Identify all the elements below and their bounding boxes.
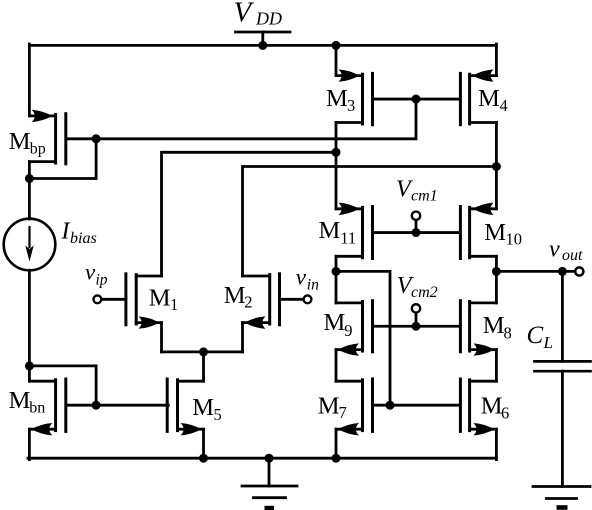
terminal Vcm1: [415, 220, 418, 232]
svg-text:M: M: [318, 392, 340, 419]
wire Ibias to Mbn: [28, 270, 31, 381]
wire rail to M3 source: [335, 45, 338, 75]
svg-text:M: M: [224, 282, 246, 309]
terminal vout: [575, 267, 583, 275]
wire Mbp diode tie: [31, 139, 96, 179]
svg-text:M: M: [326, 85, 348, 112]
transistor Mbp: [29, 115, 55, 118]
node Mbn gate tie on rail: [25, 361, 34, 370]
transistor M3: [336, 74, 363, 77]
node Vcm2 gate: [412, 322, 421, 331]
wire M1 drain up: [162, 152, 337, 276]
wire M10 drain down: [495, 256, 498, 303]
svg-text:M: M: [324, 309, 346, 336]
current source Ibias: [4, 219, 56, 271]
node Vcm1 gate: [412, 228, 421, 237]
svg-text:11: 11: [340, 228, 356, 247]
transistor Mbn: [29, 380, 55, 383]
node Mbn gate tie: [92, 401, 101, 410]
node CL tap: [558, 267, 567, 276]
svg-text:bias: bias: [70, 230, 97, 247]
terminal Vcm2: [415, 313, 418, 326]
wire M3-M4 gate: [374, 98, 460, 101]
svg-text:M: M: [149, 285, 171, 312]
svg-text:7: 7: [339, 403, 347, 422]
svg-text:9: 9: [344, 321, 352, 340]
node tail junction: [199, 347, 208, 356]
svg-text:I: I: [61, 219, 71, 245]
svg-text:v: v: [549, 237, 560, 263]
transistor M11: [336, 207, 363, 210]
svg-text:v: v: [296, 265, 307, 290]
wire M3 drain down: [335, 123, 338, 209]
node M5 source rail: [199, 454, 208, 463]
wire vout to CL: [561, 271, 564, 361]
ground center: [242, 485, 297, 488]
terminal vin: [280, 298, 304, 301]
wire M9 source down: [335, 350, 338, 382]
wire rail to ground: [268, 458, 271, 486]
node Mbp drain-gate tie: [25, 174, 34, 183]
svg-text:M: M: [192, 394, 214, 421]
svg-text:DD: DD: [255, 9, 282, 29]
svg-text:cm2: cm2: [411, 284, 438, 301]
wire M2 drain up: [243, 167, 497, 277]
svg-text:M: M: [319, 217, 341, 244]
wire M1 source down: [160, 323, 163, 352]
wire VDD top rail: [29, 44, 496, 47]
terminal vip: [102, 298, 126, 301]
transistor M5: [178, 380, 204, 383]
svg-text:2: 2: [244, 293, 252, 312]
wire M8 source down: [495, 350, 498, 382]
svg-text:in: in: [307, 276, 319, 293]
node M3-M4 gate junction: [412, 95, 421, 104]
svg-text:C: C: [527, 322, 544, 349]
wire left rail upper: [28, 44, 31, 116]
transistor M1: [136, 275, 161, 278]
svg-text:6: 6: [501, 404, 509, 423]
wire Mbn-M5 gate: [67, 404, 168, 407]
transistor M4: [470, 74, 497, 77]
node M7-M6 gate junction: [386, 401, 395, 410]
node wire B junction: [332, 148, 341, 157]
svg-text:M: M: [484, 219, 506, 246]
wire CL to ground: [561, 371, 564, 486]
wire M2 source down: [241, 323, 244, 352]
transistor M6: [470, 380, 497, 383]
transistor M10: [470, 207, 497, 210]
svg-text:ip: ip: [96, 271, 108, 288]
node left cascode: [332, 267, 341, 276]
wire M4 drain down: [495, 123, 498, 209]
svg-text:bn: bn: [29, 399, 45, 416]
wire M7-M6 gate: [374, 404, 460, 407]
node vout: [492, 267, 501, 276]
svg-text:1: 1: [170, 295, 178, 314]
wire cascode feedback: [336, 271, 390, 405]
transistor M7: [336, 380, 363, 383]
wire Mbp gate bus: [67, 99, 416, 139]
wire Mbn source to ground rail: [28, 429, 31, 459]
svg-text:10: 10: [506, 230, 523, 249]
node ground rail tap: [265, 454, 274, 463]
wire M5 drain to tail: [202, 352, 205, 381]
wire tail: [162, 350, 243, 353]
power VDD supply symbol: [236, 31, 291, 34]
wire Mbn diode tie: [31, 366, 96, 405]
node top rail M3 tap: [332, 41, 341, 50]
svg-text:M: M: [481, 392, 503, 419]
svg-text:V: V: [234, 0, 255, 29]
wire M5 source to rail: [202, 429, 205, 458]
svg-text:4: 4: [500, 96, 508, 115]
svg-text:M: M: [478, 85, 500, 112]
svg-text:M: M: [483, 312, 505, 339]
wire M7 source to rail: [335, 429, 338, 458]
transistor M8: [470, 301, 497, 304]
svg-text:L: L: [543, 333, 553, 352]
svg-text:cm1: cm1: [411, 187, 438, 204]
svg-text:M: M: [9, 387, 31, 414]
wire ground rail: [28, 457, 496, 460]
wire M6 source to rail: [495, 429, 498, 459]
node VDD rail tap: [258, 41, 267, 50]
wire M9-M8 gate: [374, 325, 460, 328]
node M7 source rail: [332, 454, 341, 463]
wire M11 drain down: [335, 256, 338, 303]
capacitor CL: [535, 360, 591, 363]
node wire C junction: [492, 162, 501, 171]
svg-text:M: M: [9, 128, 31, 155]
node Mbp gate tie: [92, 134, 101, 143]
wire vout: [496, 270, 575, 273]
svg-text:3: 3: [347, 96, 355, 115]
ground right: [533, 485, 590, 488]
svg-text:bp: bp: [30, 141, 46, 158]
transistor M2: [243, 275, 270, 278]
wire M11-M10 gate: [374, 231, 460, 234]
svg-text:out: out: [562, 247, 583, 264]
wire Mbp drain to Ibias: [28, 162, 31, 219]
transistor M9: [336, 301, 363, 304]
svg-text:v: v: [85, 260, 96, 285]
wire rail to M4 source: [495, 44, 498, 76]
svg-text:8: 8: [504, 323, 512, 342]
svg-text:5: 5: [214, 405, 222, 424]
